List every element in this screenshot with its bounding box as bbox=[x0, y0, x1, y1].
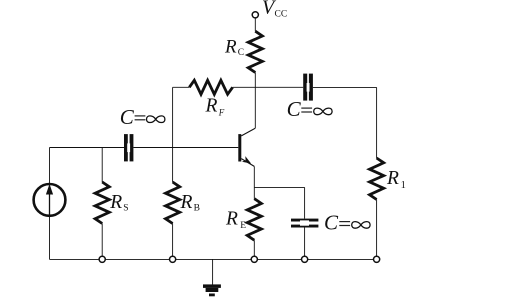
svg-text:R: R bbox=[205, 96, 218, 117]
svg-text:R: R bbox=[180, 192, 193, 213]
svg-text:R: R bbox=[224, 36, 237, 57]
svg-text:C: C bbox=[287, 97, 302, 121]
svg-text:C: C bbox=[120, 105, 135, 129]
svg-text:1: 1 bbox=[401, 180, 406, 191]
svg-text:F: F bbox=[218, 108, 225, 118]
svg-text:R: R bbox=[386, 168, 399, 189]
svg-text:S: S bbox=[123, 203, 128, 213]
svg-text:C: C bbox=[238, 48, 244, 58]
svg-text:B: B bbox=[194, 203, 200, 213]
svg-text:C: C bbox=[324, 211, 339, 235]
svg-text:R: R bbox=[109, 192, 122, 213]
svg-text:CC: CC bbox=[275, 10, 288, 20]
svg-text:E: E bbox=[240, 221, 246, 231]
svg-text:R: R bbox=[225, 208, 238, 229]
